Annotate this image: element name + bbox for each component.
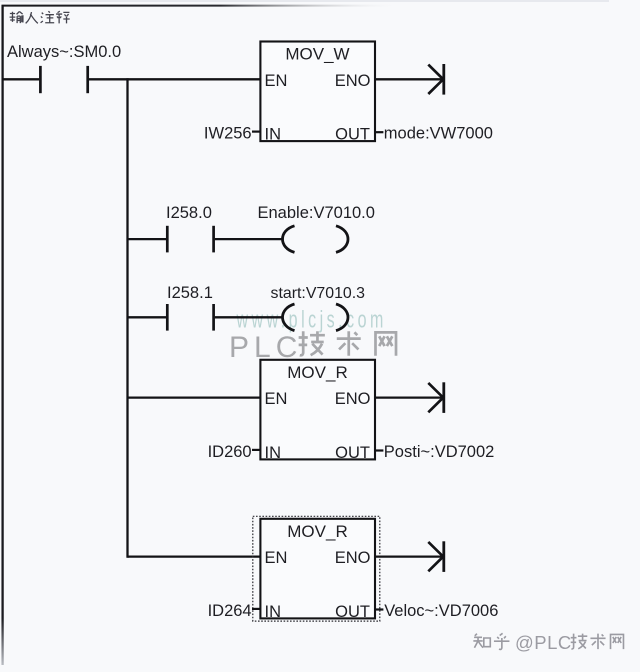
- watermark PLC技术网: [229, 331, 396, 364]
- svg-text:IN: IN: [265, 126, 282, 144]
- contact I258.0 bar 2: [212, 226, 215, 253]
- contact I258.0 label: [166, 204, 212, 222]
- wire MOV_R U3 ENO to arrow: [375, 555, 442, 557]
- svg-text:www.plcjs.com: www.plcjs.com: [236, 307, 387, 333]
- operand Veloc~:VD7006: [384, 602, 498, 620]
- pin OUT stub of MOV_R U2: [375, 449, 383, 451]
- operand ID260: [208, 443, 252, 461]
- svg-text:Posti~:VD7002: Posti~:VD7002: [384, 443, 495, 461]
- watermark 知乎 @PLC技术网: [473, 632, 623, 653]
- svg-text:Veloc~:VD7006: Veloc~:VD7006: [384, 602, 498, 620]
- contact Always~:SM0.0 bar 1: [39, 66, 42, 93]
- contact I258.1 bar 2: [212, 304, 215, 331]
- wire rail to contact: [2, 78, 39, 80]
- open arrow terminator rung 4: [428, 382, 444, 413]
- pin IN stub of MOV_R U2: [252, 449, 260, 451]
- wire MOV_R U2 ENO to arrow: [375, 396, 442, 398]
- svg-text:OUT: OUT: [335, 603, 370, 621]
- svg-text:ID264: ID264: [208, 602, 252, 620]
- wire contact I258.0 to coil: [215, 238, 284, 240]
- operand mode:VW7000: [384, 125, 493, 143]
- wire branch to contact I258.0: [128, 238, 167, 240]
- svg-text:mode:VW7000: mode:VW7000: [384, 125, 493, 143]
- left power rail: [1, 5, 3, 665]
- svg-text:OUT: OUT: [335, 126, 370, 144]
- wire contact to MOV_W EN: [89, 78, 261, 80]
- svg-text:IN: IN: [265, 603, 282, 621]
- pin IN stub of MOV_R U3: [252, 608, 260, 610]
- svg-text:ENO: ENO: [335, 549, 371, 567]
- svg-text:I258.1: I258.1: [167, 284, 213, 302]
- svg-text:ENO: ENO: [335, 72, 371, 90]
- svg-text:ENO: ENO: [335, 390, 371, 408]
- network comment 输入注释: [10, 11, 70, 23]
- wire contact I258.1 to coil: [215, 316, 284, 318]
- svg-text:EN: EN: [265, 549, 288, 567]
- operand ID264: [208, 602, 252, 620]
- wire MOV_W ENO to arrow: [375, 78, 442, 80]
- contact I258.1 bar 1: [166, 304, 169, 331]
- svg-text:IN: IN: [265, 444, 282, 462]
- svg-text:@PLC: @PLC: [515, 632, 572, 653]
- selection marquee around MOV_R U3: [253, 516, 380, 621]
- svg-text:Always~:SM0.0: Always~:SM0.0: [7, 43, 121, 61]
- coil Enable:V7010.0: [283, 226, 349, 253]
- contact Always~:SM0.0 bar 2: [86, 66, 89, 93]
- pin OUT stub of MOV_R U3: [375, 608, 383, 610]
- svg-text:I258.0: I258.0: [166, 204, 212, 222]
- svg-text:MOV_R: MOV_R: [287, 363, 347, 382]
- contact I258.1 label: [167, 284, 213, 302]
- operand IW256: [204, 125, 252, 143]
- svg-text:MOV_R: MOV_R: [287, 522, 347, 541]
- box MOV_W U1: [260, 42, 375, 144]
- wire left branch vertical: [126, 78, 128, 558]
- svg-text:OUT: OUT: [335, 444, 370, 462]
- coil start:V7010.3: [283, 304, 349, 331]
- pin OUT stub of MOV_W: [375, 131, 383, 133]
- svg-text:ID260: ID260: [208, 443, 252, 461]
- watermark www.plcjs.com: [236, 307, 387, 333]
- contact I258.0 bar 1: [166, 226, 169, 253]
- coil start:V7010.3 label: [271, 285, 366, 302]
- svg-text:start:V7010.3: start:V7010.3: [271, 285, 366, 302]
- svg-text:IW256: IW256: [204, 125, 252, 143]
- wire branch to contact I258.1: [128, 316, 167, 318]
- svg-text:MOV_W: MOV_W: [285, 45, 349, 64]
- svg-text:EN: EN: [265, 72, 288, 90]
- pin IN stub of MOV_W: [252, 131, 260, 133]
- open arrow terminator rung 1: [428, 64, 444, 95]
- wire branch to MOV_R U3 EN: [128, 555, 262, 557]
- operand Posti~:VD7002: [384, 443, 495, 461]
- coil Enable:V7010.0 label: [258, 204, 375, 222]
- svg-text:Enable:V7010.0: Enable:V7010.0: [258, 204, 375, 222]
- box MOV_R U3: [260, 519, 375, 621]
- frame top edge line: [0, 0, 609, 6]
- contact Always~:SM0.0 label: [7, 43, 121, 61]
- box MOV_R U2: [260, 360, 375, 462]
- svg-text:EN: EN: [265, 390, 288, 408]
- open arrow terminator rung 5: [428, 541, 444, 572]
- wire branch to MOV_R U2 EN: [128, 396, 262, 398]
